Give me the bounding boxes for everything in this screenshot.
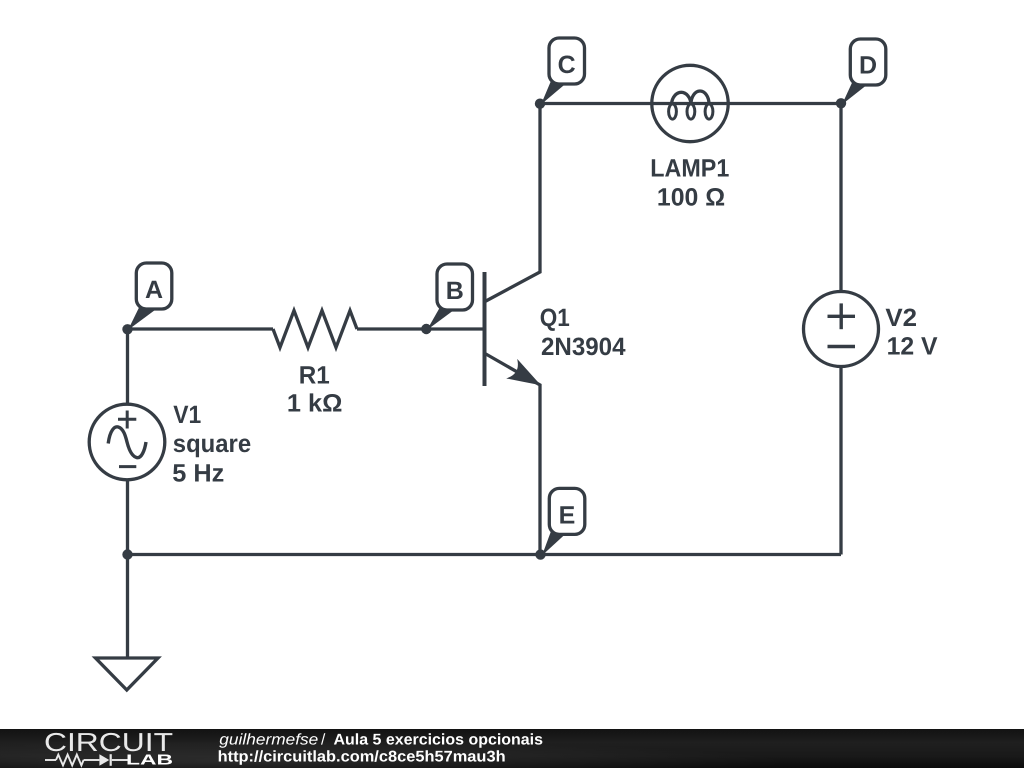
svg-text:guilhermefse: guilhermefse	[219, 732, 318, 749]
transistor Q1 body bar	[483, 272, 487, 386]
svg-text:C: C	[558, 51, 576, 79]
wire node B to Q1 base	[426, 327, 485, 330]
junction dot V1/ground	[122, 549, 132, 559]
svg-text:/: /	[321, 732, 326, 749]
wire R1 right lead to node B	[357, 327, 426, 330]
svg-text:http://circuitlab.com/c8ce5h57: http://circuitlab.com/c8ce5h57mau3h	[218, 749, 506, 766]
wire V2 bottom terminal to bottom rail	[839, 366, 842, 555]
label A callout	[128, 263, 172, 330]
bottom rail wire (ground net)	[128, 553, 842, 556]
lamp LAMP1	[652, 65, 728, 141]
Q1 emitter arrow	[508, 361, 540, 385]
svg-text:square: square	[173, 430, 251, 458]
svg-text:100 Ω: 100 Ω	[657, 183, 725, 211]
svg-text:12 V: 12 V	[887, 333, 938, 361]
label D callout	[842, 39, 886, 105]
wire V1 bottom terminal to ground rail	[126, 479, 129, 555]
svg-text:1 kΩ: 1 kΩ	[287, 389, 343, 417]
node C	[535, 99, 545, 109]
footer bar glow	[0, 729, 1024, 768]
label E callout	[542, 488, 585, 555]
wire junction down to ground symbol	[126, 555, 129, 659]
resistor R1	[273, 311, 357, 348]
svg-text:V1: V1	[173, 401, 201, 429]
svg-text:Aula 5 exercicios opcionais: Aula 5 exercicios opcionais	[334, 732, 544, 749]
ground	[96, 658, 159, 690]
svg-text:Q1: Q1	[540, 304, 570, 332]
wire node A down to V1 top terminal	[126, 329, 129, 405]
label B callout	[427, 264, 473, 330]
CircuitLab logo schematic glyph (resistor + diode)	[45, 754, 128, 766]
label C callout	[541, 38, 585, 105]
voltage source V2	[804, 292, 879, 367]
svg-text:D: D	[859, 52, 877, 80]
svg-text:5 Hz: 5 Hz	[172, 459, 224, 487]
svg-text:R1: R1	[299, 361, 330, 389]
svg-text:E: E	[559, 501, 576, 529]
node A	[122, 324, 132, 334]
node D	[836, 98, 846, 108]
svg-text:LAB: LAB	[126, 753, 173, 768]
node B	[421, 324, 431, 334]
svg-text:B: B	[446, 277, 464, 305]
svg-text:A: A	[145, 276, 163, 304]
Q1 emitter lead	[485, 354, 540, 555]
svg-text:2N3904: 2N3904	[541, 333, 626, 361]
svg-text:V2: V2	[885, 304, 917, 332]
svg-text:LAMP1: LAMP1	[650, 155, 729, 183]
voltage source V1 (sine symbol circle)	[89, 404, 165, 480]
node E	[535, 549, 545, 559]
wire node D down to V2 top terminal	[839, 104, 842, 293]
Q1 collector lead	[485, 104, 540, 302]
wire node A to R1 left lead	[128, 327, 274, 330]
top rail wire node C to node D	[540, 102, 841, 105]
